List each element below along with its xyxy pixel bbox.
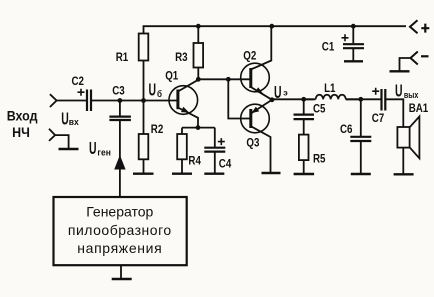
- speaker BA1: [397, 117, 419, 175]
- svg-text:U: U: [395, 82, 403, 102]
- node junction dots: [118, 24, 364, 130]
- svg-text:R1: R1: [116, 51, 129, 64]
- label plus sign of supply terminal: [421, 24, 429, 33]
- resistor R1: [139, 34, 149, 101]
- inductor L1: [304, 95, 361, 100]
- svg-text:U: U: [61, 110, 69, 130]
- arrow up on generator line: [114, 155, 125, 170]
- svg-text:C7: C7: [372, 112, 385, 125]
- svg-text:C5: C5: [313, 103, 326, 116]
- terminal XS1 plus: [410, 20, 418, 33]
- svg-text:R4: R4: [188, 155, 201, 168]
- svg-text:U: U: [149, 81, 157, 101]
- ground Q3: [262, 172, 281, 174]
- svg-text:Вход: Вход: [7, 108, 38, 124]
- ground R4: [172, 172, 192, 174]
- wire Q1 collector node to Q2 base node: [198, 78, 228, 80]
- terminal XS2 minus: [411, 52, 418, 65]
- wire generator terminal to ground: [55, 135, 69, 149]
- ground C4: [204, 172, 224, 174]
- capacitor C1: [342, 26, 365, 61]
- svg-text:э: э: [283, 87, 288, 97]
- svg-text:C1: C1: [322, 41, 335, 54]
- wire C2 to Q1 base: [91, 100, 178, 102]
- capacitor C7: [372, 88, 385, 111]
- svg-text:R2: R2: [151, 123, 164, 136]
- svg-text:C3: C3: [112, 85, 125, 98]
- ground generator terminal: [59, 148, 79, 150]
- ground C1: [344, 60, 363, 62]
- svg-text:б: б: [157, 89, 162, 100]
- wire output node Ue: [272, 98, 314, 100]
- ground minus terminal: [390, 70, 410, 72]
- transistor Q2: [228, 26, 272, 100]
- wire emitter node of Q1: [182, 127, 215, 129]
- svg-text:C6: C6: [340, 123, 353, 136]
- svg-text:Q1: Q1: [165, 70, 178, 83]
- wire C3 to generator box: [119, 120, 121, 197]
- capacitor C5: [294, 99, 315, 119]
- wire input to C2: [57, 100, 86, 102]
- svg-text:C2: C2: [72, 75, 85, 88]
- svg-text:Q3: Q3: [246, 137, 259, 150]
- wire L1 to C7: [346, 98, 382, 100]
- transistor Q3: [228, 79, 272, 173]
- capacitor C4: [204, 128, 225, 174]
- ground generator block: [112, 278, 132, 280]
- label minus sign: [421, 55, 429, 57]
- capacitor C6: [350, 99, 371, 174]
- capacitor C3: [109, 101, 130, 121]
- svg-text:R5: R5: [313, 153, 326, 166]
- ground R5: [294, 173, 315, 175]
- resistor R5: [299, 119, 309, 174]
- resistor R4: [177, 128, 187, 174]
- ground R2: [133, 172, 154, 174]
- svg-text:вых: вых: [404, 90, 419, 100]
- transistor Q1: [169, 79, 199, 127]
- capacitor C2: [78, 89, 92, 111]
- resistor R3: [194, 26, 204, 79]
- svg-text:L1: L1: [324, 83, 335, 96]
- ground C6: [351, 173, 371, 175]
- svg-text:C4: C4: [219, 158, 232, 171]
- svg-text:вх: вх: [69, 117, 79, 127]
- wire C7 to speaker: [385, 99, 403, 127]
- svg-text:U: U: [274, 83, 282, 103]
- resistor R2: [139, 101, 149, 174]
- svg-text:ген: ген: [97, 147, 110, 157]
- svg-text:НЧ: НЧ: [12, 125, 30, 141]
- svg-text:напряжения: напряжения: [77, 240, 162, 256]
- terminal XS3 input: [50, 94, 57, 107]
- wire minus terminal to ground: [400, 58, 411, 71]
- svg-text:U: U: [89, 139, 97, 159]
- ground BA1: [394, 173, 414, 175]
- svg-text:Q2: Q2: [243, 50, 256, 63]
- svg-text:R3: R3: [175, 51, 188, 64]
- svg-text:пилообразного: пилообразного: [68, 222, 172, 238]
- svg-text:Генератор: Генератор: [86, 204, 153, 220]
- svg-text:BA1: BA1: [409, 102, 429, 115]
- terminal XS4 generator input: [49, 129, 55, 141]
- generator block: [54, 197, 187, 279]
- wire top supply rail: [144, 26, 407, 33]
